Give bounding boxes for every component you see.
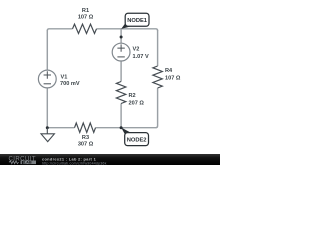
label R2 name and value 207 Ω bbox=[129, 93, 145, 106]
svg-text:R3: R3 bbox=[82, 135, 89, 141]
node NODE1 flag bbox=[121, 13, 149, 29]
svg-text:R1: R1 bbox=[82, 8, 89, 14]
wire: NODE1 stub from top wire down to V2 plus terminal bbox=[120, 29, 122, 44]
svg-text:NODE1: NODE1 bbox=[127, 18, 148, 24]
wire: top-left horizontal segment with rounded corner bbox=[47, 29, 72, 31]
svg-text:107 Ω: 107 Ω bbox=[165, 75, 181, 81]
voltage source V2 bbox=[112, 43, 130, 61]
svg-text:107 Ω: 107 Ω bbox=[78, 15, 94, 21]
svg-text:700 mV: 700 mV bbox=[60, 81, 80, 87]
svg-text:207 Ω: 207 Ω bbox=[129, 100, 145, 106]
label V2 name and value 1.07 V bbox=[133, 47, 149, 60]
node NODE2 flag bbox=[121, 128, 148, 146]
wire: top horizontal segment from R1 to top-right corner bbox=[97, 29, 158, 31]
wire: bottom horizontal left of R3 bbox=[47, 127, 74, 129]
resistor R4 bbox=[153, 66, 162, 88]
svg-text:▮LAB: ▮LAB bbox=[22, 160, 32, 165]
resistor R3 bbox=[75, 123, 96, 132]
wire: right vertical from R4 to bottom-right corner bbox=[156, 88, 158, 128]
label R4 name and value 107 Ω bbox=[165, 68, 181, 81]
svg-text:R2: R2 bbox=[129, 93, 136, 99]
svg-text:1.07 V: 1.07 V bbox=[133, 54, 149, 60]
wire: V2 minus terminal down to R2 bbox=[120, 61, 122, 82]
wire: left vertical from top corner to V1 plus terminal bbox=[46, 30, 48, 70]
ground bbox=[41, 128, 54, 142]
CircuitLab logo bbox=[9, 156, 37, 164]
watermark bar bbox=[0, 154, 220, 165]
wire: right vertical from top-right corner to R4 bbox=[157, 30, 159, 66]
wire: bottom horizontal right of R3 to bottom-right corner bbox=[96, 127, 157, 129]
voltage source V1 bbox=[38, 70, 56, 88]
junction dot at NODE2 bbox=[120, 126, 123, 129]
svg-text:V1: V1 bbox=[61, 74, 68, 80]
wire: R2 down to NODE2 junction bbox=[120, 104, 122, 128]
label R1 name and value 107 Ω bbox=[78, 8, 94, 21]
svg-text:http://circuitlab.com/c/hfw904: http://circuitlab.com/c/hfw9044dp36k bbox=[42, 161, 107, 165]
svg-text:V2: V2 bbox=[133, 47, 140, 53]
svg-text:R4: R4 bbox=[165, 68, 173, 74]
label R3 name and value 307 Ω bbox=[78, 135, 94, 147]
label V1 name and value 700 mV bbox=[60, 74, 80, 87]
junction dot at ground node bbox=[46, 126, 49, 129]
wire: V1 minus terminal down to ground junction bbox=[46, 88, 48, 128]
svg-text:NODE2: NODE2 bbox=[127, 137, 147, 143]
resistor R2 bbox=[116, 82, 125, 104]
svg-text:307 Ω: 307 Ω bbox=[78, 141, 94, 147]
junction dot on NODE1 stub bbox=[120, 36, 123, 39]
resistor R1 bbox=[73, 24, 97, 33]
